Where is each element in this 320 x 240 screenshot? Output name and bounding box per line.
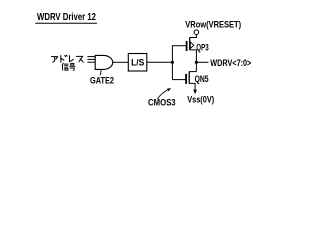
- wire: vertical gate bus: [171, 46, 173, 80]
- wire: QN5 drain up to output node: [195, 62, 197, 71]
- leader line from GATE2 label to gate: [100, 70, 101, 76]
- svg-text:WDRV<7:0>: WDRV<7:0>: [210, 58, 251, 69]
- ground arrow to Vss: [193, 90, 197, 95]
- wire: branch to QN5 gate: [172, 79, 186, 81]
- wire: L/S output to gate bus junction: [147, 61, 173, 63]
- svg-text:L/S: L/S: [131, 58, 144, 68]
- svg-text:Vss(0V): Vss(0V): [187, 94, 214, 104]
- wire: output to WDRV label: [196, 61, 208, 63]
- wire: gate output to L/S box: [113, 61, 129, 63]
- leader arrow from CMOS3 to inverter pair: [157, 88, 171, 99]
- wire: branch to QP3 gate: [172, 45, 186, 47]
- figure title WDRV Driver 12: [35, 12, 97, 23]
- node: gate bus junction dot: [171, 61, 174, 64]
- svg-text:QN5: QN5: [195, 74, 209, 84]
- transistor QN5 (NMOS): [186, 72, 196, 91]
- AND gate GATE2: [95, 55, 113, 69]
- label アドレス (address) hand-drawn glyphs: [51, 55, 83, 62]
- svg-text:CMOS3: CMOS3: [148, 97, 176, 107]
- node: output junction dot: [195, 61, 198, 64]
- svg-text:WDRV Driver 12: WDRV Driver 12: [37, 12, 96, 23]
- level shifter box L/S: [128, 54, 147, 72]
- svg-text:GATE2: GATE2: [90, 76, 114, 86]
- wire: 3 input stubs into GATE2: [87, 57, 95, 63]
- svg-text:VRow(VRESET): VRow(VRESET): [185, 19, 241, 30]
- svg-text:QP3: QP3: [196, 43, 208, 53]
- power terminal circle to VRow: [194, 30, 199, 35]
- transistor QP3 (PMOS): [187, 35, 197, 63]
- label 信号 (signal) hand-drawn glyphs: [62, 63, 75, 70]
